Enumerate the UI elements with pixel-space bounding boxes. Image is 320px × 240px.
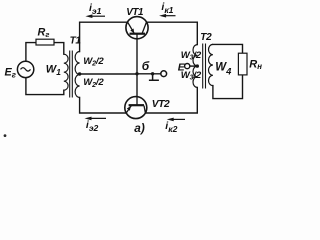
svg-text:Eг: Eг — [5, 67, 16, 80]
svg-text:W2/2: W2/2 — [83, 77, 104, 89]
svg-text:а): а) — [134, 121, 145, 135]
terminal E circle — [185, 64, 190, 69]
svg-text:VT1: VT1 — [126, 7, 143, 18]
ground junction dot — [151, 72, 154, 75]
svg-text:W3/2: W3/2 — [181, 50, 202, 62]
core T2 — [203, 44, 206, 89]
svg-text:Т2: Т2 — [200, 32, 212, 43]
wire bottom rail left — [80, 98, 127, 114]
wire left loop bottom — [26, 78, 64, 95]
wire left loop top — [26, 43, 64, 60]
tap dot T2 — [196, 64, 199, 67]
source E_g — [5, 61, 34, 79]
transformer T1 — [46, 36, 105, 98]
wire bottom rail right — [145, 87, 197, 113]
wire top rail left — [80, 22, 128, 51]
ground — [149, 74, 159, 80]
winding W1 — [64, 54, 68, 90]
wire E terminal to tap — [190, 65, 196, 67]
winding W4 — [208, 44, 212, 85]
resistor R_g — [36, 27, 54, 45]
svg-text:W1: W1 — [46, 64, 61, 77]
svg-text:iэ1: iэ1 — [89, 2, 102, 16]
svg-text:W2/2: W2/2 — [83, 56, 104, 68]
wire top rail right — [146, 22, 197, 44]
current arrow i_e2 — [85, 117, 107, 133]
resistor R_n — [238, 53, 262, 75]
winding W2 (center-tapped) — [75, 52, 80, 98]
wire right loop — [213, 44, 243, 98]
svg-text:W4: W4 — [215, 61, 232, 76]
transformer T2 — [181, 32, 232, 88]
transistor VT2 — [125, 97, 170, 119]
svg-text:iк2: iк2 — [165, 120, 177, 134]
svg-text:iк1: iк1 — [161, 1, 173, 15]
svg-text:W3/2: W3/2 — [181, 70, 202, 82]
wire node to terminal b — [137, 73, 161, 75]
node b junction dot — [135, 72, 138, 75]
svg-text:Т1: Т1 — [70, 36, 82, 47]
wire base vertical — [136, 34, 138, 105]
transistor VT1 — [126, 7, 148, 39]
svg-text:Rг: Rг — [38, 27, 50, 40]
core T1 — [70, 51, 73, 98]
svg-text:VT2: VT2 — [152, 99, 170, 110]
tap dot T1 — [78, 72, 81, 75]
current arrow i_e1 — [85, 2, 105, 18]
svg-text:iэ2: iэ2 — [86, 119, 99, 133]
svg-text:Rн: Rн — [249, 58, 262, 71]
wire center tap T1 to node — [80, 73, 137, 75]
winding W3 (center-tapped) — [193, 45, 197, 88]
terminal b circle — [161, 71, 167, 77]
current arrow i_k2 — [165, 118, 185, 134]
current arrow i_k1 — [159, 1, 175, 17]
ink speck bottom left — [4, 134, 7, 137]
svg-text:б: б — [142, 59, 150, 73]
